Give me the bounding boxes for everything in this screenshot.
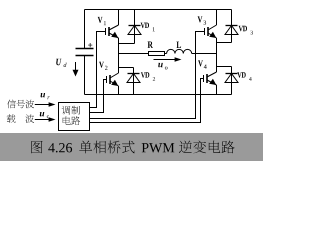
DC source branch wire upper — [84, 10, 86, 49]
load wire middle segment — [165, 53, 167, 55]
VD1 cathode wire to positive bus — [134, 10, 136, 44]
ur signal input arrow — [35, 102, 56, 106]
load wire left segment (node A to resistor) — [119, 53, 149, 55]
IGBT V4 — [204, 72, 217, 85]
label VD4 — [237, 72, 251, 81]
inductor L — [167, 49, 192, 53]
VD4 anode wire to negative bus — [231, 67, 233, 95]
Ud voltage direction arrow — [73, 62, 79, 77]
gate wire from modulation circuit to V3 — [90, 32, 205, 119]
wire V2 collector to VD2 cathode (jog) — [119, 67, 134, 69]
uc carrier input arrow — [35, 117, 56, 121]
label VD2 — [141, 72, 155, 81]
label L — [176, 42, 181, 48]
load wire right segment (inductor to node B) — [192, 53, 217, 55]
IGBT V1 — [106, 25, 119, 38]
freewheel diode VD2 — [127, 74, 140, 83]
resistor R — [149, 52, 165, 56]
negative DC bus wire (bottom rail) — [85, 94, 232, 96]
label V4 — [198, 60, 207, 68]
freewheel diode VD3 — [225, 26, 238, 35]
wire V1 emitter to VD1 anode (jog) — [119, 43, 135, 45]
label 信号波 (signal wave) — [7, 100, 34, 109]
VD2 anode wire to negative bus — [133, 68, 135, 95]
wire V4 collector to VD4 cathode (jog) — [217, 66, 232, 68]
label ur — [41, 93, 50, 99]
label Ud — [56, 59, 66, 67]
plus polarity label — [88, 43, 92, 47]
freewheel diode VD1 — [128, 26, 141, 35]
caption background bar — [0, 133, 263, 161]
label V3 — [198, 16, 207, 24]
V2 emitter wire to negative bus — [118, 86, 120, 95]
label 调制电路 (modulation circuit) — [62, 106, 80, 125]
right leg midpoint wire (V3 emitter to V4 collector, node B) — [216, 38, 218, 72]
caption title: 图 4.26 单相桥式 PWM 逆变电路 — [31, 141, 234, 154]
uo output voltage arrow — [154, 57, 182, 61]
IGBT V2 — [107, 73, 119, 86]
label VD1 — [141, 23, 155, 32]
V4 emitter wire to negative bus — [216, 85, 218, 95]
label R — [148, 42, 154, 48]
label VD3 — [239, 26, 253, 35]
wire V3 emitter to VD3 anode (jog) — [217, 42, 232, 44]
label 载波 (carrier wave) — [7, 114, 34, 123]
gate wire from modulation circuit to V2 — [90, 80, 107, 113]
filter capacitor C — [76, 49, 94, 56]
label V2 — [99, 62, 107, 70]
label uc — [40, 112, 49, 118]
V3 collector wire to positive bus — [216, 10, 218, 26]
left leg midpoint wire (V1 emitter to V2 collector, node A) — [118, 38, 120, 73]
label V1 — [98, 17, 106, 25]
DC source branch wire lower — [84, 56, 86, 95]
gate wire from modulation circuit to V4 — [90, 79, 204, 123]
modulation circuit box — [59, 103, 90, 131]
VD3 cathode wire to positive bus — [231, 10, 233, 43]
gate wire from modulation circuit to V1 — [90, 32, 106, 108]
IGBT V3 — [205, 25, 217, 38]
label uo — [158, 63, 167, 70]
positive DC bus wire (top rail) — [85, 9, 232, 11]
V1 collector wire to positive bus — [118, 10, 120, 26]
freewheel diode VD4 — [225, 74, 238, 83]
